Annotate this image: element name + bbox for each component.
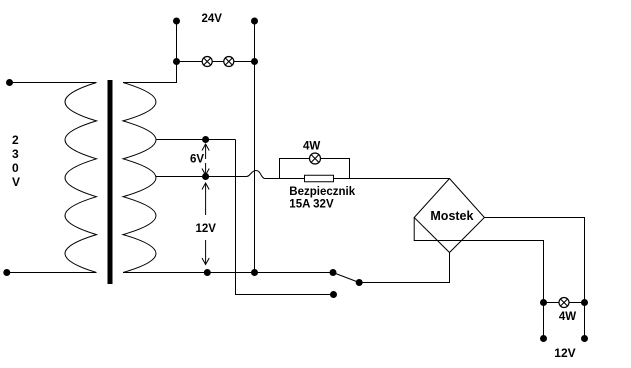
- svg-text:12V: 12V: [196, 223, 217, 235]
- node: switch lower contact: [330, 291, 337, 298]
- svg-text:15A 32V: 15A 32V: [289, 199, 334, 211]
- wire: output left stub: [543, 303, 545, 339]
- terminal: 24V right: [251, 18, 258, 25]
- terminal: 24V left: [173, 18, 180, 25]
- dimension arrow 12V upper: [202, 183, 209, 215]
- wire: stub to 24V left terminal: [176, 21, 178, 62]
- wire: output right stub: [584, 303, 586, 339]
- svg-text:4W: 4W: [559, 311, 576, 323]
- wire: stub to 24V right terminal: [254, 21, 256, 62]
- wire: bridge bottom to switch blade: [359, 253, 449, 283]
- terminal: primary bottom: [3, 269, 10, 276]
- wire: 24V lamp branch: [177, 61, 255, 63]
- transformer core: [108, 80, 113, 284]
- svg-text:4W: 4W: [303, 140, 320, 152]
- wire: 24V right drop to bottom tap: [254, 62, 256, 273]
- junction: 12V tap marker: [202, 173, 209, 180]
- node: switch pivot: [330, 269, 337, 276]
- svg-text:24V: 24V: [202, 13, 223, 25]
- junction: 24V right node: [251, 58, 258, 65]
- wire: output lamp branch: [544, 302, 585, 304]
- node: switch blade end: [356, 279, 363, 286]
- svg-text:Mostek: Mostek: [430, 209, 473, 223]
- wire: 12V tap to fuse and bridge (hops over drop wire): [156, 171, 450, 179]
- wire: bridge left output: [414, 218, 543, 303]
- transformer primary winding: [65, 83, 97, 273]
- bridge rectifier Mostek: [414, 179, 484, 253]
- terminal: 12V output left: [540, 335, 547, 342]
- wire: primary top lead: [10, 82, 97, 84]
- svg-text:Bezpiecznik: Bezpiecznik: [289, 186, 355, 198]
- lamp 4W (fuse blown indicator): [310, 153, 321, 164]
- switch S1 blade: [333, 273, 359, 283]
- svg-text:2: 2: [12, 133, 19, 147]
- dimension arrow 6V upper: [202, 144, 209, 159]
- wire: bridge right output: [484, 218, 584, 303]
- dimension arrow 6V lower: [202, 163, 209, 175]
- lamp L2 24V: [224, 57, 234, 67]
- svg-text:0: 0: [12, 161, 19, 175]
- wire: 6V tap: [156, 139, 236, 141]
- junction: output left corner: [540, 299, 547, 306]
- lamp L1 24V: [202, 57, 212, 67]
- svg-text:V: V: [12, 175, 20, 189]
- junction: 24V left node: [173, 58, 180, 65]
- junction: output right corner: [581, 299, 588, 306]
- junction: drop meets bottom tap: [251, 269, 258, 276]
- wire: lamp bypass around fuse: [280, 159, 350, 179]
- svg-text:12V: 12V: [554, 346, 575, 360]
- transformer secondary winding: [123, 83, 156, 273]
- junction: 12V dimension marker: [204, 269, 211, 276]
- lamp 4W output: [559, 298, 569, 308]
- svg-text:6V: 6V: [190, 154, 204, 166]
- fuse F1: [305, 175, 334, 182]
- junction: 6V tap marker: [202, 136, 209, 143]
- label 230V: [12, 133, 20, 189]
- svg-text:3: 3: [12, 147, 19, 161]
- wire: primary bottom lead: [7, 272, 97, 274]
- wire: 6V tap drop to switch lower contact: [236, 140, 334, 295]
- terminal: primary top: [6, 79, 13, 86]
- terminal: 12V output right: [581, 335, 588, 342]
- wire: bottom tap to switch pivot: [123, 272, 333, 274]
- dimension arrow 12V lower: [202, 240, 209, 265]
- wire: secondary top to 24V node: [123, 62, 177, 83]
